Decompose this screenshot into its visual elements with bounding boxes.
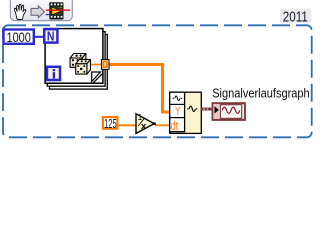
svg-text:Signalverlaufsgraph: Signalverlaufsgraph bbox=[212, 85, 310, 100]
svg-text:1000: 1000 bbox=[6, 29, 31, 45]
svg-text:Y: Y bbox=[175, 104, 181, 118]
svg-text:2011: 2011 bbox=[283, 9, 308, 25]
svg-text:N: N bbox=[47, 29, 55, 44]
svg-text:x: x bbox=[141, 121, 147, 132]
svg-text:dt: dt bbox=[171, 118, 179, 133]
svg-text:125: 125 bbox=[104, 117, 117, 131]
